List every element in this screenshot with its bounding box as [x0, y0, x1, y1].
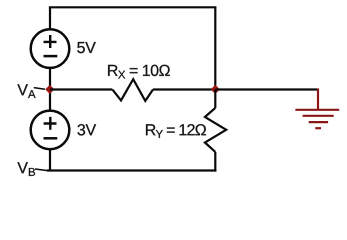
ground bar 1	[295, 109, 339, 111]
leader line from VA label to node A	[34, 88, 45, 90]
resistor RY zigzag	[205, 108, 226, 152]
node A junction dot	[46, 86, 53, 93]
resistor RX zigzag	[112, 79, 153, 101]
value label 3V	[78, 124, 97, 135]
ground bar 3	[309, 121, 328, 123]
node label VA	[17, 84, 35, 98]
wire: 5V bottom to node A	[49, 68, 51, 90]
node junction dot at RY top	[212, 86, 219, 93]
ground bar 4	[315, 127, 321, 129]
value label RX = 10 ohm	[108, 65, 170, 79]
V2 minus sign	[44, 137, 58, 140]
V2 plus sign	[44, 117, 57, 130]
V1 minus sign	[44, 55, 58, 58]
wire: bottom rail	[47, 169, 216, 171]
wire: 3V bottom to node B	[49, 149, 51, 170]
wire: right drop from top rail to node	[214, 7, 216, 89]
wire: node A down to 3V source top	[49, 90, 51, 111]
wire: node A to resistor RX	[50, 88, 112, 90]
wire: resistor RX to node at RY top	[153, 88, 215, 90]
voltage source V1 5V circle	[31, 29, 70, 68]
voltage source V2 3V circle	[31, 111, 70, 150]
ground bar 2	[303, 115, 334, 117]
wire: node to ground	[215, 88, 317, 90]
node label VB	[17, 162, 35, 176]
V1 plus sign	[44, 35, 57, 48]
value label RY = 12 ohm	[146, 124, 206, 138]
wire: top rail	[49, 6, 217, 8]
wire: 5V source top to top rail	[49, 7, 51, 29]
wire: resistor RY bottom to bottom rail	[214, 152, 216, 172]
wire: node down to resistor RY	[214, 90, 216, 108]
ground stem	[317, 88, 319, 109]
leader line from VB label to node B	[35, 169, 50, 171]
value label 5V	[77, 42, 96, 53]
